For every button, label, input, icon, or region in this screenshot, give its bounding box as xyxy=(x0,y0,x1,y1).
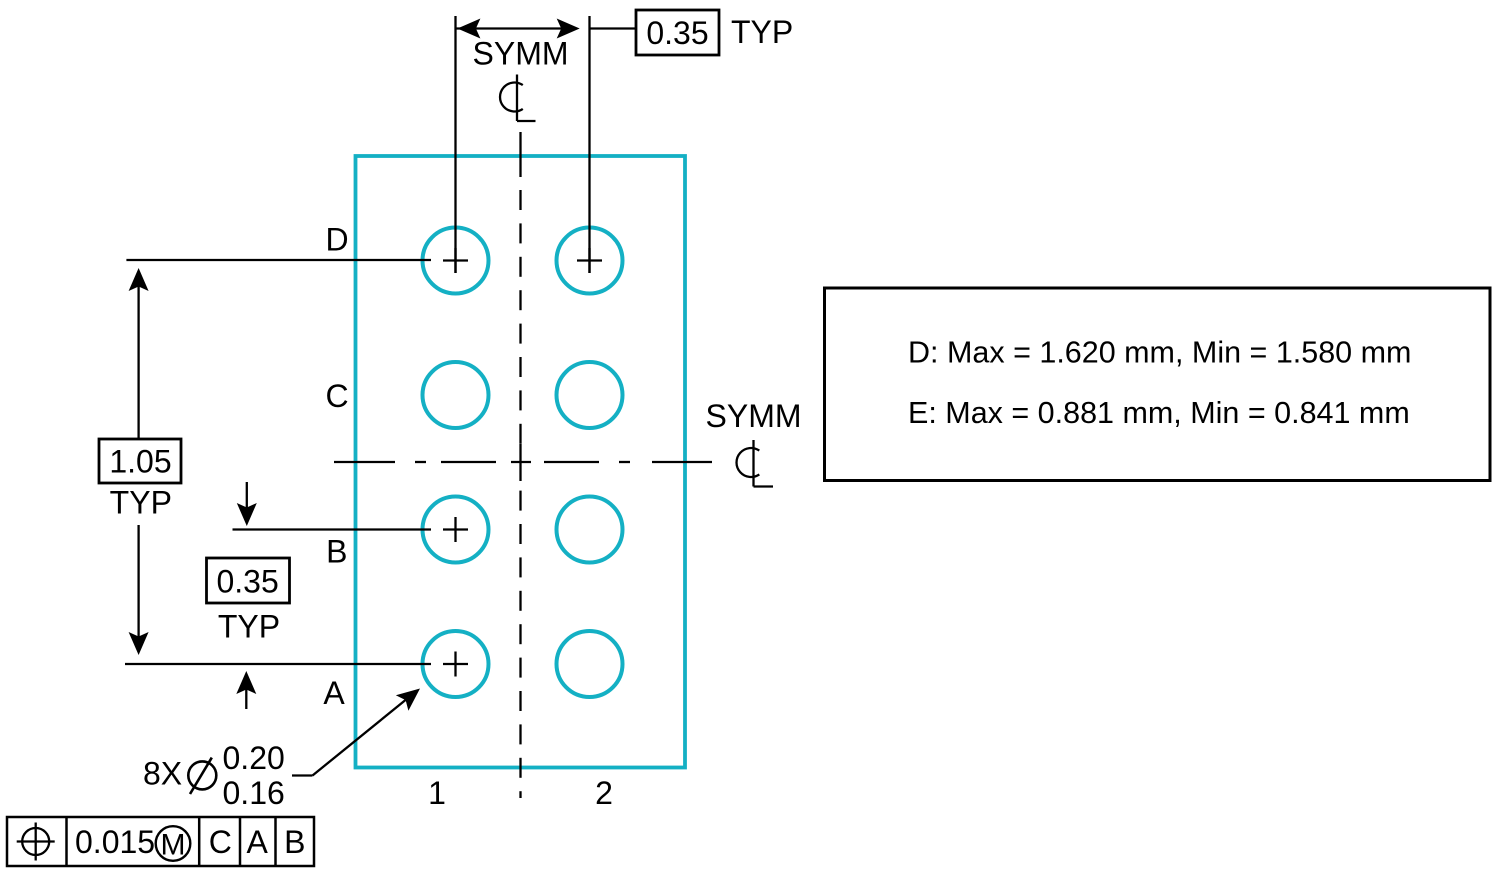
svg-text:TYP: TYP xyxy=(218,609,280,645)
svg-text:D: Max = 1.620 mm, Min = 1.580: D: Max = 1.620 mm, Min = 1.580 mm xyxy=(908,335,1411,369)
center mark ball D1 xyxy=(443,248,468,273)
svg-text:0.35: 0.35 xyxy=(216,563,278,599)
top dimension arrowhead right xyxy=(557,19,580,39)
svg-text:D: D xyxy=(325,222,348,258)
svg-text:B: B xyxy=(326,534,347,570)
extension line column 1 xyxy=(454,16,456,273)
svg-text:1: 1 xyxy=(428,775,446,811)
svg-text:2: 2 xyxy=(595,775,613,811)
centerline symbol right xyxy=(737,440,773,487)
ball A1 xyxy=(423,631,489,697)
svg-text:A: A xyxy=(323,675,345,711)
package outline xyxy=(356,156,686,768)
svg-text:8X: 8X xyxy=(143,756,182,792)
ball C2 xyxy=(557,362,623,428)
ball D1 xyxy=(423,228,489,294)
svg-text:C: C xyxy=(325,378,348,414)
svg-text:SYMM: SYMM xyxy=(706,398,802,434)
ball A2 xyxy=(557,631,623,697)
top dimension arrowhead left xyxy=(457,19,480,39)
svg-text:0.015: 0.015 xyxy=(75,824,155,860)
ball C1 xyxy=(423,362,489,428)
row B extension line xyxy=(233,528,432,530)
diameter symbol xyxy=(188,758,216,794)
center mark ball B1 xyxy=(443,517,468,542)
feature control frame outline xyxy=(7,817,314,866)
svg-text:1.05: 1.05 xyxy=(109,443,171,479)
arrowhead down row B xyxy=(237,503,257,526)
svg-text:B: B xyxy=(284,824,305,860)
dimension box 0.35 top xyxy=(636,10,719,55)
down arrow line row B xyxy=(246,482,248,522)
leader line horizontal xyxy=(292,774,313,776)
svg-text:SYMM: SYMM xyxy=(473,36,569,72)
FCF cell separators xyxy=(67,817,276,866)
horizontal centerline (dash-dot) xyxy=(334,461,712,463)
material condition modifier circled M xyxy=(156,826,191,861)
ball B1 xyxy=(423,497,489,563)
note box xyxy=(825,288,1491,481)
center mark ball D2 xyxy=(577,248,602,273)
ball B2 xyxy=(557,497,623,563)
center mark ball A1 xyxy=(443,652,468,677)
leader to 0.35 box xyxy=(590,27,637,29)
dimension box 0.35 left xyxy=(207,558,290,603)
svg-text:0.35: 0.35 xyxy=(646,15,708,51)
svg-text:M: M xyxy=(161,828,186,861)
vertical dimension line 1.05 lower xyxy=(137,525,139,651)
arrowhead up 1.05 xyxy=(129,268,149,291)
svg-text:0.20: 0.20 xyxy=(223,740,285,776)
svg-text:TYP: TYP xyxy=(110,485,172,521)
svg-text:TYP: TYP xyxy=(731,14,793,50)
arrowhead down 1.05 xyxy=(129,632,149,655)
dimension box 1.05 xyxy=(99,439,181,483)
leader line diagonal xyxy=(313,692,417,776)
svg-text:0.16: 0.16 xyxy=(223,775,285,811)
centerline symbol top xyxy=(500,75,535,122)
row D extension line xyxy=(126,259,431,261)
row A extension line xyxy=(125,663,431,665)
leader arrowhead xyxy=(396,681,426,711)
arrowhead up row A xyxy=(236,671,256,694)
vertical centerline (dashed) xyxy=(519,132,521,798)
ball D2 xyxy=(557,228,623,294)
svg-text:A: A xyxy=(247,824,269,860)
svg-text:E: Max = 0.881 mm, Min = 0.841: E: Max = 0.881 mm, Min = 0.841 mm xyxy=(908,396,1410,430)
vertical dimension line 1.05 upper xyxy=(137,272,139,439)
top dimension line xyxy=(457,27,563,29)
extension line column 2 xyxy=(588,16,590,273)
svg-text:C: C xyxy=(209,824,232,860)
position tolerance symbol xyxy=(17,823,55,861)
up arrow line row A xyxy=(245,675,247,709)
